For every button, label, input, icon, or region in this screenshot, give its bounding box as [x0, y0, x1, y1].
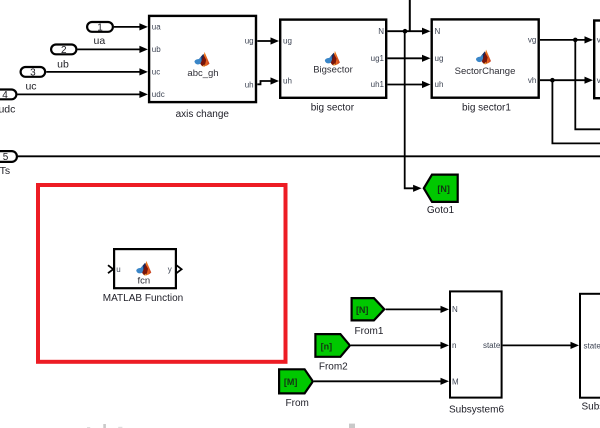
block big sector1 — [432, 19, 539, 97]
svg-text:ug: ug — [435, 54, 444, 63]
wire Ts across full width — [18, 155, 600, 157]
svg-text:big sector: big sector — [311, 102, 355, 113]
svg-text:Goto1: Goto1 — [427, 205, 455, 216]
svg-text:udc: udc — [152, 90, 165, 99]
unconnected output arrow of MATLAB Function — [176, 265, 181, 273]
label Subsystem6 — [449, 404, 504, 415]
label MATLAB Function — [103, 293, 183, 304]
text SectorChange — [455, 66, 516, 77]
svg-text:Bigsector: Bigsector — [313, 65, 353, 76]
label From2 — [319, 362, 348, 373]
svg-text:fcn: fcn — [137, 275, 150, 286]
label Goto1 — [427, 205, 455, 216]
matlab logo in MATLAB Function — [136, 261, 151, 276]
block axis change — [149, 16, 256, 102]
axis change input pin labels ua ub uc udc — [152, 23, 165, 100]
wire: vertical feed from top edge to N-wire junction — [409, 0, 411, 31]
partial gray block top at bottom edge x104 — [103, 424, 106, 428]
Subsystem6 pin labels N n M state — [452, 305, 501, 386]
unconnected input arrow of MATLAB Function — [108, 265, 113, 273]
wire uh1: big sector to big sector1 — [388, 81, 431, 88]
junction node on N wire — [403, 29, 408, 34]
svg-text:n: n — [452, 341, 456, 350]
wire branch: vh junction down and right off-canvas — [552, 80, 600, 143]
svg-text:uh: uh — [245, 81, 254, 90]
svg-text:state: state — [584, 341, 600, 350]
svg-text:From: From — [286, 398, 309, 409]
input port 3 — [21, 67, 46, 79]
wire port4 to axis change udc — [18, 91, 148, 98]
svg-text:SectorChange: SectorChange — [455, 66, 516, 77]
top-right block pin labels vg vh (clipped) — [597, 36, 600, 85]
wire branch: N junction down to Goto1 — [405, 31, 422, 192]
wire uh: axis change to big sector (jog) — [257, 77, 279, 84]
svg-text:udc: udc — [0, 103, 15, 115]
svg-text:1: 1 — [97, 23, 103, 34]
svg-text:N: N — [378, 27, 384, 36]
partial gray block top at bottom edge x349 — [349, 424, 355, 428]
wire From2 to Subsystem6 n — [351, 342, 449, 349]
wire port3 to axis change uc — [46, 68, 148, 75]
label big sector — [311, 102, 355, 113]
svg-text:ua: ua — [94, 35, 106, 47]
svg-text:ug: ug — [245, 37, 254, 46]
label ub — [57, 58, 69, 70]
wire From to Subsystem6 M — [314, 378, 449, 385]
svg-text:abc_gh: abc_gh — [187, 68, 218, 79]
svg-text:5: 5 — [3, 152, 9, 163]
svg-text:Subsystem7: Subsystem7 — [582, 401, 600, 412]
wire vg: big sector1 to right block — [540, 36, 593, 43]
matlab logo in big sector — [325, 51, 340, 66]
svg-text:state: state — [483, 341, 501, 350]
label axis change — [176, 109, 230, 120]
input port 5 — [0, 151, 17, 163]
svg-text:big sector1: big sector1 — [462, 103, 511, 114]
axis change output pin labels ug uh — [245, 37, 254, 90]
label bottom-right subsystem (clipped) — [582, 401, 600, 412]
big sector1 input pin labels N ug uh — [435, 27, 444, 89]
svg-text:uc: uc — [25, 80, 36, 92]
partial gray block top at bottom edge left — [87, 427, 90, 428]
svg-text:M: M — [452, 377, 459, 386]
big sector output pin labels N ug1 uh1 — [371, 27, 385, 89]
svg-text:uh: uh — [435, 80, 444, 89]
svg-text:N: N — [435, 27, 441, 36]
input port 1 — [87, 22, 113, 34]
svg-text:uc: uc — [152, 68, 160, 77]
wire port2 to axis change ub — [78, 46, 148, 53]
svg-text:vh: vh — [528, 76, 536, 85]
svg-text:ug1: ug1 — [371, 54, 385, 63]
junction node on vg wire — [573, 38, 578, 43]
svg-text:N: N — [452, 305, 458, 314]
big sector1 output pin labels vg vh — [528, 36, 536, 85]
svg-text:uh: uh — [283, 77, 292, 86]
label big sector1 — [462, 103, 511, 114]
svg-text:[N]: [N] — [437, 184, 450, 194]
svg-text:uh1: uh1 — [371, 80, 385, 89]
svg-text:y: y — [168, 265, 172, 274]
svg-text:ua: ua — [152, 23, 161, 32]
svg-text:[N]: [N] — [356, 305, 369, 315]
block MATLAB Function — [114, 249, 176, 288]
partial gray block top at bottom edge x118 — [118, 427, 122, 428]
svg-text:MATLAB Function: MATLAB Function — [103, 293, 183, 304]
label Ts — [0, 165, 10, 177]
input port 4 — [0, 90, 16, 102]
MATLAB Function pin labels u y — [116, 265, 172, 274]
from tag From1 — [352, 298, 385, 320]
svg-text:From1: From1 — [355, 326, 384, 337]
wire branch: vg junction down and right off-canvas — [575, 40, 600, 129]
label From — [286, 398, 309, 409]
block big sector — [280, 20, 386, 98]
wire vh: big sector1 to right block — [540, 77, 593, 84]
svg-text:3: 3 — [30, 68, 36, 79]
text abc_gh — [187, 68, 218, 79]
svg-text:axis change: axis change — [176, 109, 230, 120]
junction node on vh wire — [550, 78, 555, 83]
svg-text:[n]: [n] — [321, 342, 333, 352]
input port 2 — [51, 45, 76, 57]
label udc — [0, 103, 15, 115]
block top-right (clipped) — [594, 21, 600, 99]
label ua — [94, 35, 106, 47]
text Bigsector — [313, 65, 353, 76]
wire port1 to axis change ua — [114, 23, 148, 30]
svg-text:u: u — [116, 265, 120, 274]
wire N: big sector to big sector1 — [388, 28, 431, 35]
block Subsystem6 — [450, 291, 502, 397]
text fcn — [137, 275, 150, 286]
red annotation box — [38, 185, 286, 362]
wire From1 to Subsystem6 N — [386, 306, 449, 313]
from tag From — [279, 369, 313, 393]
wire state: Subsystem6 to right block — [503, 342, 579, 349]
svg-text:From2: From2 — [319, 362, 348, 373]
matlab logo in axis change — [194, 52, 209, 67]
label uc — [25, 80, 36, 92]
svg-text:ub: ub — [152, 45, 161, 54]
svg-text:ug: ug — [283, 37, 292, 46]
from tag From2 — [315, 334, 350, 357]
bottom-right block pin label state — [584, 341, 600, 350]
svg-text:4: 4 — [2, 90, 8, 101]
label From1 — [355, 326, 384, 337]
goto tag Goto1 — [424, 175, 458, 202]
svg-text:2: 2 — [61, 45, 67, 56]
svg-text:Subsystem6: Subsystem6 — [449, 404, 504, 415]
wire ug1: big sector to big sector1 — [388, 55, 431, 62]
svg-text:Ts: Ts — [0, 165, 10, 177]
big sector input pin labels ug uh — [283, 37, 292, 86]
svg-text:[M]: [M] — [284, 377, 298, 387]
svg-text:vg: vg — [528, 36, 536, 45]
matlab logo in big sector1 — [476, 50, 491, 65]
block bottom-right (clipped) — [580, 294, 600, 398]
svg-text:ub: ub — [57, 58, 69, 70]
wire ug: axis change to big sector — [257, 37, 279, 44]
